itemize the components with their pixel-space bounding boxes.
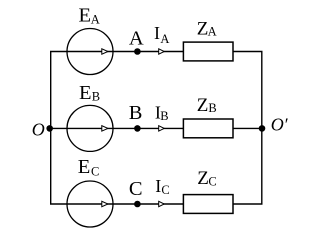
EMF source E_A arrow — [102, 49, 108, 54]
wire branch B horizontal — [50, 127, 263, 129]
svg-text:B: B — [160, 109, 168, 123]
impedance Z_C box — [183, 195, 233, 214]
EMF source E_C arrow — [102, 201, 108, 206]
svg-text:A: A — [208, 25, 217, 39]
svg-text:Z: Z — [197, 95, 209, 116]
svg-text:C: C — [161, 183, 169, 197]
node A dot — [134, 48, 141, 55]
label E_C — [78, 156, 100, 178]
svg-text:C: C — [129, 178, 143, 200]
svg-text:B: B — [92, 90, 100, 104]
label node C — [129, 178, 143, 200]
EMF source E_C circle — [67, 181, 113, 227]
label I_A — [154, 23, 169, 46]
wire right bus O' vertical — [261, 52, 263, 205]
svg-text:O: O — [32, 120, 45, 140]
svg-text:E: E — [79, 82, 92, 104]
wire branch A horizontal — [50, 51, 263, 53]
current I_A arrow — [159, 49, 165, 54]
label node A — [129, 27, 144, 49]
wire branch C horizontal — [50, 203, 263, 205]
label Z_B — [197, 95, 217, 116]
label Z_C — [197, 168, 217, 189]
current I_C arrow — [159, 201, 165, 206]
label E_B — [79, 82, 100, 104]
svg-text:Z: Z — [197, 168, 209, 189]
svg-text:A: A — [91, 12, 100, 26]
node C dot — [134, 201, 141, 208]
label I_C — [155, 176, 169, 197]
EMF source E_B circle — [67, 105, 113, 151]
node O dot — [46, 125, 53, 132]
label node O' — [271, 115, 289, 135]
label I_B — [155, 102, 169, 123]
label node B — [129, 102, 143, 124]
label Z_A — [197, 18, 217, 39]
svg-text:C: C — [91, 164, 99, 178]
node B dot — [134, 125, 141, 132]
svg-text:B: B — [208, 101, 216, 115]
svg-text:O′: O′ — [271, 115, 289, 135]
svg-text:B: B — [129, 102, 143, 124]
svg-text:I: I — [154, 23, 160, 43]
svg-text:A: A — [160, 32, 169, 46]
label E_A — [79, 4, 100, 26]
svg-text:C: C — [208, 175, 216, 189]
current I_B arrow — [159, 126, 165, 131]
node O' dot — [259, 125, 266, 132]
svg-text:I: I — [155, 176, 161, 196]
svg-text:E: E — [79, 4, 92, 26]
impedance Z_A box — [183, 42, 233, 61]
svg-text:E: E — [78, 156, 91, 178]
wire left bus O vertical — [50, 52, 52, 205]
EMF source E_A circle — [67, 29, 113, 75]
svg-text:A: A — [129, 27, 144, 49]
label node O — [32, 120, 45, 140]
EMF source E_B arrow — [102, 126, 108, 131]
impedance Z_B box — [183, 119, 233, 138]
